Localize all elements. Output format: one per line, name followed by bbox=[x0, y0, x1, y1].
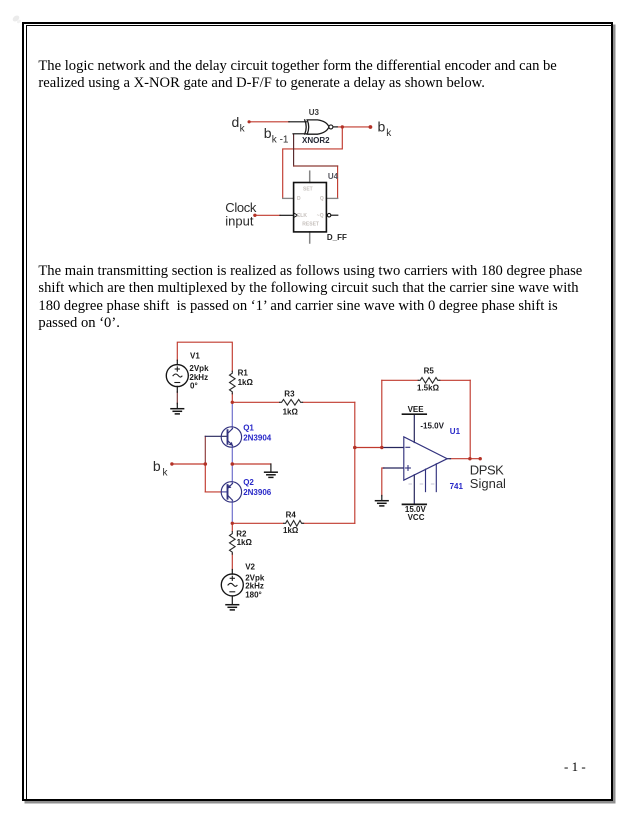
svg-text:Q2: Q2 bbox=[243, 478, 254, 487]
svg-text:2Vpk: 2Vpk bbox=[189, 364, 209, 373]
svg-text:0°: 0° bbox=[190, 382, 198, 391]
svg-text:1kΩ: 1kΩ bbox=[238, 378, 254, 387]
svg-text:b: b bbox=[378, 118, 386, 134]
svg-text:U1: U1 bbox=[450, 427, 461, 436]
svg-text:VCC: VCC bbox=[408, 513, 425, 522]
svg-text:2N3904: 2N3904 bbox=[243, 433, 272, 442]
svg-text:-15.0V: -15.0V bbox=[420, 422, 444, 431]
svg-text:R5: R5 bbox=[424, 366, 435, 375]
svg-text:Q1: Q1 bbox=[243, 423, 254, 432]
svg-text:R3: R3 bbox=[284, 390, 295, 399]
svg-text:2N3906: 2N3906 bbox=[243, 488, 272, 497]
svg-text:180°: 180° bbox=[245, 591, 262, 600]
svg-text:V2: V2 bbox=[245, 563, 255, 572]
svg-text:Q: Q bbox=[320, 196, 324, 202]
svg-text:VEE: VEE bbox=[408, 405, 425, 414]
svg-text:b: b bbox=[153, 458, 161, 474]
svg-text:1kΩ: 1kΩ bbox=[283, 407, 299, 416]
svg-text:k -1: k -1 bbox=[272, 134, 289, 145]
svg-text:k: k bbox=[163, 467, 169, 478]
svg-text:~Q: ~Q bbox=[317, 213, 324, 219]
svg-text:R1: R1 bbox=[238, 368, 249, 377]
svg-text:input: input bbox=[225, 214, 254, 229]
svg-text:CLK: CLK bbox=[297, 213, 308, 219]
svg-text:k: k bbox=[386, 128, 392, 139]
svg-text:R4: R4 bbox=[286, 510, 297, 519]
svg-text:1kΩ: 1kΩ bbox=[283, 526, 299, 535]
svg-text:2kHz: 2kHz bbox=[245, 582, 264, 591]
svg-text:D: D bbox=[297, 196, 301, 202]
svg-text:b: b bbox=[264, 125, 272, 141]
svg-text:V1: V1 bbox=[190, 352, 200, 361]
svg-text:Signal: Signal bbox=[470, 476, 506, 491]
svg-text:U3: U3 bbox=[309, 108, 320, 117]
svg-text:RESET: RESET bbox=[302, 222, 319, 228]
svg-text:741: 741 bbox=[450, 482, 464, 491]
svg-text:1kΩ: 1kΩ bbox=[237, 538, 253, 547]
svg-text:XNOR2: XNOR2 bbox=[302, 136, 330, 145]
svg-text:d: d bbox=[232, 114, 240, 130]
svg-text:1.5kΩ: 1.5kΩ bbox=[417, 384, 440, 393]
svg-text:k: k bbox=[240, 124, 246, 135]
svg-text:U4: U4 bbox=[328, 172, 339, 181]
svg-text:D_FF: D_FF bbox=[327, 233, 347, 242]
svg-text:SET: SET bbox=[303, 187, 313, 193]
